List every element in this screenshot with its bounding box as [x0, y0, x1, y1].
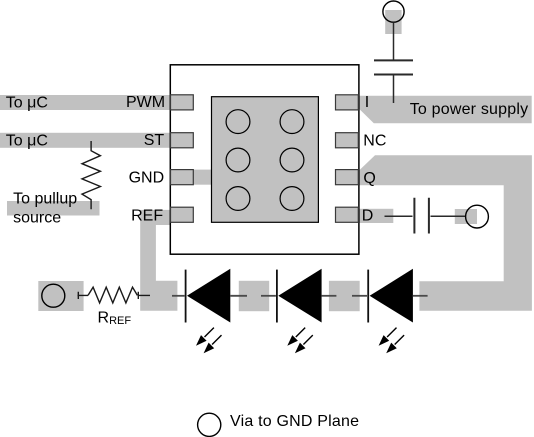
wire pullup source trace: [7, 201, 100, 216]
LED D1 arrow 2: [204, 335, 222, 353]
pad via top: [385, 10, 401, 34]
wire REF trace: [140, 210, 177, 311]
pin Q pad: [336, 170, 359, 185]
wire D pad stub: [359, 209, 393, 223]
svg-text:Via to GND Plane: Via to GND Plane: [230, 413, 359, 430]
via top circle: [383, 1, 404, 22]
thermal pad: [212, 97, 319, 223]
LED D3 triangle: [370, 269, 413, 323]
capacitor C2 plates: [414, 198, 429, 234]
via left circle: [42, 284, 65, 307]
wire pad to LED2: [261, 295, 276, 297]
wire power supply trace: [359, 96, 531, 123]
IC U1 outline: [170, 65, 359, 254]
svg-text:NC: NC: [363, 132, 386, 149]
capacitor C1 plates: [374, 60, 413, 74]
pad LED1-LED2: [239, 281, 269, 311]
svg-text:source: source: [13, 209, 61, 226]
LED D1 arrow 1: [196, 328, 214, 346]
svg-text:Q: Q: [363, 170, 375, 187]
pin GND pad: [171, 170, 194, 185]
capacitor C1 lead top: [393, 22, 395, 59]
svg-text:RREF: RREF: [98, 310, 132, 327]
pin REF pad: [171, 207, 194, 222]
resistor RREF leads and ticks: [78, 292, 151, 299]
svg-text:PWM: PWM: [126, 94, 165, 111]
via legend circle: [198, 413, 221, 436]
LED D2 arrow 1: [287, 328, 305, 346]
wire GND stub to thermal pad: [193, 170, 211, 185]
svg-text:To μC: To μC: [6, 132, 48, 149]
wire REF to LED1: [172, 295, 185, 297]
pin ST pad: [171, 133, 194, 148]
resistor RREF zigzag: [88, 287, 137, 303]
wire LED1 anode: [230, 295, 247, 297]
pin NC pad: [336, 133, 359, 148]
LED D1 triangle: [187, 269, 230, 323]
LED D2 triangle: [278, 269, 321, 323]
via thermal 6: [280, 187, 304, 211]
LED D2 arrow 2: [295, 335, 313, 353]
svg-text:To μC: To μC: [6, 95, 48, 112]
LED D3 cathode bar: [367, 270, 369, 323]
wire ST trace to uC: [0, 133, 171, 148]
pad via left: [38, 281, 83, 311]
wire Q trace LED return: [359, 155, 532, 310]
pad LED2-LED3: [329, 281, 360, 311]
LED D2 cathode bar: [276, 270, 278, 323]
via thermal 1: [226, 110, 250, 134]
wire D pin to C2: [385, 215, 413, 217]
wire LED2 anode: [322, 295, 337, 297]
via thermal 5: [226, 187, 250, 211]
LED D3 arrow 2: [386, 335, 404, 353]
wire LED3 anode: [413, 295, 428, 297]
resistor pullup R1: [82, 141, 100, 209]
pin PWM pad: [171, 95, 194, 110]
svg-text:GND: GND: [129, 170, 165, 187]
pin I pad: [336, 95, 359, 110]
wire PWM trace to uC: [0, 95, 171, 110]
via thermal 4: [280, 148, 304, 172]
via thermal 2: [280, 110, 304, 134]
svg-text:To pullup: To pullup: [13, 191, 77, 208]
svg-text:I: I: [365, 94, 369, 111]
svg-text:To power supply: To power supply: [410, 101, 529, 118]
LED D1 cathode bar: [185, 270, 187, 323]
capacitor C1 lead bottom: [393, 76, 395, 104]
svg-text:ST: ST: [144, 132, 165, 149]
svg-text:REF: REF: [131, 208, 163, 225]
wire pad to LED3: [352, 295, 367, 297]
pin D pad: [336, 207, 359, 222]
pad via D: [455, 209, 477, 224]
LED D3 arrow 1: [379, 328, 397, 346]
via D circle: [466, 205, 489, 228]
svg-text:D: D: [362, 208, 374, 225]
wire C2 to via: [431, 215, 467, 217]
via thermal 3: [226, 148, 250, 172]
